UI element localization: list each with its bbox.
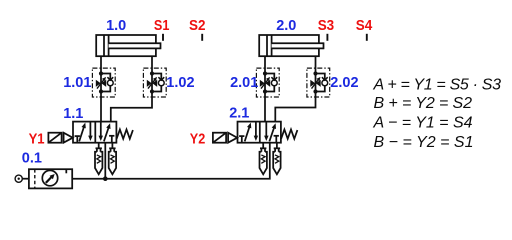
svg-text:S1: S1 (154, 18, 170, 34)
junction dot bottom (99, 89, 103, 93)
bypass wire (152, 74, 161, 80)
svg-text:1.0: 1.0 (106, 18, 126, 34)
check valve seat (107, 77, 113, 80)
valve 2.1 body (238, 122, 281, 143)
junction dot bottom (263, 89, 267, 93)
throttle triangle (310, 80, 315, 87)
junction dot supply bus (103, 176, 108, 181)
bypass wire (316, 74, 325, 80)
silencer at valve 1.1 port 3 (109, 143, 116, 175)
limit switch tick S1 (162, 34, 164, 41)
throttle adjust arrow (148, 79, 155, 89)
svg-text:0.1: 0.1 (22, 150, 42, 166)
junction dot top (313, 71, 317, 75)
throttle triangle (265, 80, 270, 87)
svg-text:S3: S3 (318, 18, 335, 34)
silencer at valve 1.1 port 5 (95, 143, 102, 175)
svg-text:S2: S2 (189, 18, 206, 34)
throttle adjust arrow (261, 79, 268, 89)
solenoid Y2 (213, 133, 237, 143)
spring valve 1.1 (117, 130, 133, 139)
throttle adjust arrow (312, 79, 319, 89)
supply bus wire (72, 143, 270, 179)
throttle triangle (147, 80, 152, 87)
junction dot top (263, 71, 267, 75)
wire cylinder 2.0 left port to valve 2.1 port 4 (264, 56, 266, 121)
svg-text:1.01: 1.01 (63, 75, 91, 91)
silencer at valve 2.1 port 5 (260, 143, 267, 175)
flow control valve 1.02 (143, 68, 166, 97)
air service unit 0.1 (15, 169, 72, 188)
throttle triangle (316, 80, 321, 87)
throttle triangle (96, 80, 101, 87)
junction dot bottom (313, 89, 317, 93)
wire cylinder 2.0 right port through valve 2.02 to valve 2.1 port 2 (275, 56, 315, 121)
svg-text:S4: S4 (356, 18, 373, 34)
svg-text:2.02: 2.02 (330, 75, 358, 91)
solenoid Y1 (48, 133, 72, 143)
throttle triangle (152, 80, 157, 87)
bypass wire (101, 74, 110, 80)
wire cylinder 1.0 right port through valve 1.02 to valve 1.1 port 2 (111, 56, 152, 121)
bypass wire return (265, 86, 274, 92)
check valve ball (322, 80, 328, 86)
svg-text:Y1: Y1 (29, 132, 45, 148)
svg-text:1.02: 1.02 (166, 75, 194, 91)
svg-text:B + = Y2 = S2: B + = Y2 = S2 (374, 95, 473, 112)
wire cylinder 1.0 left port to valve 1.1 port 4 (100, 56, 102, 121)
cylinder 2.0 (259, 35, 323, 56)
check valve ball (271, 80, 277, 86)
svg-text:2.01: 2.01 (230, 75, 258, 91)
svg-text:Y2: Y2 (190, 132, 206, 148)
svg-text:2.1: 2.1 (229, 106, 249, 122)
check valve seat (271, 77, 277, 80)
valve 1.1 body (73, 122, 116, 143)
flow control valve 1.01 (92, 68, 115, 97)
silencer at valve 2.1 port 3 (273, 143, 280, 175)
junction dot top (150, 71, 154, 75)
throttle adjust arrow (97, 79, 104, 89)
wire valve 1.1 port 1 to supply bus (104, 143, 106, 179)
check valve ball (107, 80, 113, 86)
throttle triangle (260, 80, 265, 87)
svg-text:2.0: 2.0 (276, 18, 296, 34)
check valve seat (158, 77, 164, 80)
bypass wire return (152, 86, 161, 92)
bypass wire return (101, 86, 110, 92)
limit switch tick S4 (366, 34, 368, 41)
spring valve 2.1 (281, 130, 297, 139)
check valve seat (322, 77, 328, 80)
limit switch tick S3 (326, 34, 328, 41)
throttle triangle (101, 80, 106, 87)
flow control valve 2.02 (307, 68, 330, 97)
svg-text:A − = Y1 = S4: A − = Y1 = S4 (373, 115, 473, 132)
check valve ball (158, 80, 164, 86)
bypass wire (265, 74, 274, 80)
flow control valve 2.01 (256, 68, 279, 97)
cylinder 1.0 (96, 35, 160, 56)
junction dot bottom (150, 89, 154, 93)
svg-text:1.1: 1.1 (63, 106, 83, 122)
svg-text:B − = Y2 = S1: B − = Y2 = S1 (374, 134, 474, 151)
svg-text:A + = Y1 = S5 · S3: A + = Y1 = S5 · S3 (373, 77, 502, 94)
bypass wire return (316, 86, 325, 92)
junction dot top (99, 71, 103, 75)
limit switch tick S2 (201, 34, 203, 41)
